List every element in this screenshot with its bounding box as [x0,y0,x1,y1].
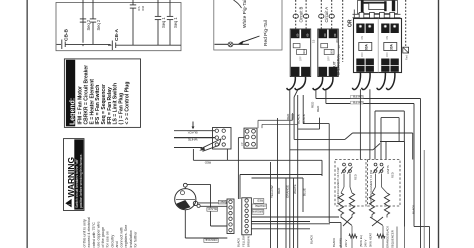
label RED boxed [218,200,226,204]
wire - L2 feed across [326,103,414,105]
svg-text:BLUE: BLUE [302,188,306,196]
svg-text:(5KW EL): (5KW EL) [359,235,363,247]
svg-text:use copper wire: use copper wire [96,221,100,247]
svg-text:RED: RED [354,174,358,180]
wire - long mid feed [227,159,322,161]
panel divider [377,19,379,73]
svg-text:RED: RED [316,105,320,112]
heater element HE zigzag [349,193,354,215]
control plug CP block [244,128,257,148]
svg-text:CB-A: CB-A [114,28,120,41]
wire LS to HE [343,174,345,188]
svg-text:BROWN: BROWN [252,209,263,213]
wire BLACK heavy lower path [289,90,291,150]
svg-text:60A: 60A [330,49,334,54]
motor inner circle [181,191,185,195]
wire drop b2 [404,227,406,248]
bracket tab [359,12,364,18]
strip B terminal [245,209,248,212]
wire element drop 2 [382,226,384,248]
heater element mini zigzag [349,234,357,238]
svg-text:LIMITS: LIMITS [386,165,390,174]
svg-text:CB-B: CB-B [64,28,70,41]
svg-text:BLACK: BLACK [332,238,336,247]
label ORANGE boxed [204,239,218,243]
svg-text:15: 15 [312,39,316,43]
wire - lower bus 1 [252,216,340,218]
strip B terminal [245,219,248,222]
svg-text:of the gauge: of the gauge [101,227,105,248]
motor chord [176,199,195,201]
op-amp n/a : relay IFR box [213,128,232,150]
motor rh terminal 1 [193,201,197,205]
strip B terminal [245,214,248,217]
svg-text:Seq 2: Seq 2 [86,19,91,30]
svg-text:installation: installation [129,230,133,247]
svg-text:Seq 2: Seq 2 [96,19,101,30]
wire - bottom right corner [414,226,430,228]
svg-text:White Pig-Tail: White Pig-Tail [242,0,248,28]
svg-text:RED: RED [219,200,225,204]
svg-text:240 V: 240 V [364,240,368,247]
relay terminal [215,136,218,139]
wire - element feed bridge 2 [381,117,399,119]
wire corner drop [321,160,323,176]
contact Seq 1 on rung [155,15,161,17]
wire - panel feed drop 1 [359,89,361,159]
warning box [64,139,85,211]
wire LS to HE [349,174,351,188]
wire - rung Seq2 no1 [82,0,84,43]
CP terminal [245,142,249,146]
svg-text:WHITE: WHITE [293,184,297,194]
wire diag E2a [370,217,383,226]
wire - element feed lower [380,141,405,143]
wire WHITE down [293,178,295,248]
svg-text:ORANGE/BLACK: ORANGE/BLACK [386,226,390,248]
svg-text:OFF: OFF [327,56,330,61]
wire - breaker hook lead [287,77,296,90]
svg-text:SEQUENCER: SEQUENCER [391,230,395,248]
CP terminal [252,129,256,133]
svg-text:ON: ON [386,36,389,40]
wire - relay to strip A [237,138,239,199]
wire - element feed bridge 1 [375,110,404,112]
wire - rung IFS/IFM [132,0,134,5]
svg-text:position before servicing this: position before servicing this furnace. [79,153,83,208]
svg-text:IFM: IFM [141,5,145,11]
wire - dashed lead Circuit A pole2 [331,0,333,29]
warning triangle [65,199,71,208]
wire BLACK no1 down [297,95,299,248]
limit switch LS [380,163,383,166]
relay armature lever [201,139,222,149]
wire ORANGE motor across [185,237,227,239]
wire drop to strip [239,175,241,200]
relay terminal [222,143,225,146]
circuit breaker panel box (front view) [354,19,402,73]
svg-text:and: and [115,241,119,247]
svg-text:YELLOW: YELLOW [270,185,274,198]
wire - rung Seq2 no2 [92,0,94,19]
label WHITE boxed (plug) [252,204,267,209]
wire element drop 1 [351,226,353,248]
breaker pole (front view) [356,24,364,34]
strip A terminal [229,200,232,203]
wire diag E1b [343,217,352,226]
wire BLUE down [302,178,304,212]
wire - red pig-tail lead [215,43,250,45]
svg-text:RED: RED [257,198,263,202]
svg-text:RED: RED [204,161,211,165]
svg-text:rated with 75°C: rated with 75°C [92,222,96,248]
svg-text:Seq 1: Seq 1 [173,17,178,28]
wire - dashed lead Circuit B pole2 [305,0,307,29]
breaker pole (front view) [366,24,374,34]
wire - far right drop [423,150,425,248]
svg-text:30A: 30A [390,43,394,50]
contact on rung [130,4,136,6]
wire zig tail [340,215,342,218]
legend box [64,59,140,128]
wire RED no1 down [289,90,291,248]
wire - rung Seq1 no2 [169,0,171,16]
motor IFM body [175,189,196,210]
limit switch LS [343,163,346,166]
contact Seq 1 on rung [167,15,173,17]
svg-text:ON: ON [361,36,364,40]
circuit breaker CBRKR pair no2 (side view) [318,29,339,77]
svg-text:BREAKER(S): BREAKER(S) [337,54,341,75]
heater element HE zigzag [384,193,389,215]
CP terminal [245,135,249,139]
wire diag E1a [341,217,352,226]
wire - dashed neutral lead [405,0,407,47]
relay terminal [222,129,225,132]
svg-text:for use on: for use on [106,231,110,247]
wire - sheet bottom border (rotated) [438,0,439,248]
breaker mounting bracket [358,1,398,14]
svg-text:60A IFM: 60A IFM [353,100,363,104]
wire - panel hook lead [377,72,386,90]
wire LS to HE [381,174,383,188]
wire YELLOW down [270,162,272,248]
label BROWN boxed (plug) [252,210,264,215]
svg-text:BLACK: BLACK [302,114,306,124]
motor top terminal [183,183,187,187]
wire - rung Seq1 no1 [157,0,159,16]
wire - mid feed 2 [240,174,322,176]
wire BLACK to relay [174,130,215,132]
svg-text:OFF: OFF [386,52,389,57]
limit switch LS [349,163,352,166]
bracket tab [370,12,375,18]
wire BLACK no2 across [303,123,329,125]
svg-text:60A IFM: 60A IFM [353,95,363,99]
wire - dashed lead Circuit B pole1 [295,0,297,29]
bracket tab rail [353,13,401,15]
circuit breaker CBRKR pair no1 (side view) [290,29,311,77]
wire - mid feed 3 [252,177,304,179]
wire from plug right 2 [251,228,310,230]
strip A terminal [229,223,232,226]
wire drop b1 [396,227,398,248]
wire ORANGE motor drop [184,210,186,238]
fan plug strip B [242,198,252,235]
leader curve white pig-tail [234,0,242,8]
breaker A rating box 60A [359,43,372,51]
CP terminal [245,129,249,133]
svg-text:OR: OR [348,19,354,27]
svg-text:Red: Red [405,55,409,60]
svg-text:RED: RED [277,187,281,194]
wire - breaker hook lead [295,77,306,90]
bracket tab [390,12,395,18]
svg-text:for further: for further [133,231,137,248]
svg-text:ORANGE: ORANGE [205,238,217,242]
wire BLACK motor [200,205,227,207]
circuit breaker CB-B symbol [57,43,62,45]
strip A terminal [229,206,232,209]
svg-text:WHITE: WHITE [188,137,198,141]
wire RED motor [198,202,228,204]
svg-text:5KW HEAT: 5KW HEAT [369,233,373,247]
wire BLACK no2 drop [328,124,330,223]
svg-text:RED: RED [391,172,395,178]
breaker pole (front view) [381,24,389,34]
leader arrow red pig-tail [241,36,260,43]
relay terminal [215,129,218,132]
svg-text:exceed 4 electrical: exceed 4 electrical [87,217,91,248]
svg-text:Red Pig-Tail: Red Pig-Tail [263,20,269,46]
wire - bracket drop [353,10,355,19]
svg-text:Circuit A: Circuit A [324,7,329,23]
svg-text:60A: 60A [302,49,306,54]
label BLACK boxed [207,208,218,212]
heater element box E2 (dashed) [368,160,401,207]
wire BLACK no2 down [302,95,304,124]
svg-text:BLACK: BLACK [412,205,416,214]
ladder schematic enclosure box [56,3,181,51]
CP terminal [252,135,256,139]
wire - dashed OR separator [342,0,344,62]
svg-text:OFF: OFF [300,56,303,61]
relay terminal [222,136,225,139]
relay terminal [215,143,218,146]
wire RED down [277,118,279,248]
heater element mini zigzag [377,234,385,238]
svg-text:connect with: connect with [120,227,124,248]
wire zig tail [386,215,388,218]
svg-text:30A: 30A [335,38,339,43]
wire - panel hook lead [386,72,395,90]
strip B terminal [245,224,248,227]
strip A terminal [229,211,232,214]
wire - bus from CB-B [68,43,111,45]
svg-text:RED: RED [310,101,314,108]
wire to relay lever [174,147,202,149]
limit switch LS [374,163,377,166]
strip A terminal [229,228,232,231]
wire CP to left [238,137,244,139]
pig-tail junction box [214,0,282,50]
svg-text:240 V: 240 V [344,240,348,247]
contact Seq 2 on rung [80,18,86,20]
svg-text:< > = Control Plug: < > = Control Plug [124,82,130,125]
svg-text:Seq 1: Seq 1 [161,17,166,28]
svg-text:(WHITE): (WHITE) [255,204,266,208]
wire zig tail [351,215,353,218]
svg-text:Circuit B: Circuit B [298,6,303,22]
wire zig tail [371,215,373,218]
svg-text:30: 30 [337,45,341,49]
wire - control plug feeders [258,119,293,121]
label RED boxed (plug) [254,199,264,204]
wire - dashed lead Circuit A pole1 [320,0,322,29]
wire RED no2 across [294,138,345,140]
wire - panel hook lead [362,72,371,90]
wire - breaker hook lead [323,77,333,90]
wire ORANGE down [285,178,287,248]
node - wire nut on red pig-tail [228,42,233,47]
wire diag E2b [372,217,383,226]
svg-text:(5 KW): (5 KW) [339,238,343,247]
wire from plug right 1 [251,223,330,225]
svg-text:circuitry: circuitry [110,235,114,248]
wire - L1 feed across [316,98,421,100]
motor wedge (dark) [176,200,190,210]
arrow marker above black wire [192,122,194,127]
circuit breaker CB-A symbol [108,44,112,46]
wire RED relay loop [192,149,194,160]
wire drop [210,184,212,226]
breaker pole (front view) [391,24,399,34]
strip A terminal [229,217,232,220]
strip B terminal [245,230,248,233]
svg-text:!: ! [68,204,72,205]
wire - panel feed drop 2 [369,89,371,159]
svg-text:BROWN: BROWN [247,236,251,247]
wire WHITE to relay [174,137,215,139]
svg-text:of this unit is only: of this unit is only [83,219,87,247]
strip B terminal [245,204,248,207]
svg-text:YELLOW: YELLOW [242,235,246,247]
CP terminal [252,142,256,146]
breaker B rating box 30A [384,43,397,51]
svg-text:ORANGE: ORANGE [285,185,289,198]
svg-text:BLACK: BLACK [237,238,241,247]
heater element HE zigzag [338,193,343,215]
fan plug strip A [227,199,234,234]
svg-text:RED: RED [286,113,290,120]
svg-text:CP: CP [240,142,244,146]
label 60A IFM no1 (boxed) [351,95,364,98]
svg-text:BLACK: BLACK [310,235,314,244]
wire - sheet top border (rotated) [27,0,28,248]
wire LS to HE [375,174,377,188]
bracket tab [380,12,385,18]
svg-text:BLACK: BLACK [207,207,216,211]
svg-text:BLACK: BLACK [188,131,198,135]
svg-text:60A: 60A [365,43,369,50]
node - splice symbol [403,47,409,53]
wire - motor top to right [187,183,210,185]
contact Seq 2 on rung [90,18,96,20]
wire - lower bus 2 [252,221,311,223]
motor rh terminal 2 [197,204,200,207]
label 60A IFM no2 (boxed) [351,101,364,104]
svg-text:Legend:: Legend: [70,98,77,125]
wire RED no2 down [293,97,295,139]
heater element box E1 (dashed) [335,160,366,207]
wire - bus from CB-A [116,44,181,46]
svg-text:OFF: OFF [361,52,364,57]
svg-text:registers. See: registers. See [124,225,128,248]
wire RED no2 to right [353,132,413,134]
heater element HE zigzag [369,193,374,215]
strip B terminal [245,199,248,202]
wire - breaker hook lead [313,77,323,90]
wire - panel hook lead [352,72,360,90]
wire stub [319,118,321,130]
